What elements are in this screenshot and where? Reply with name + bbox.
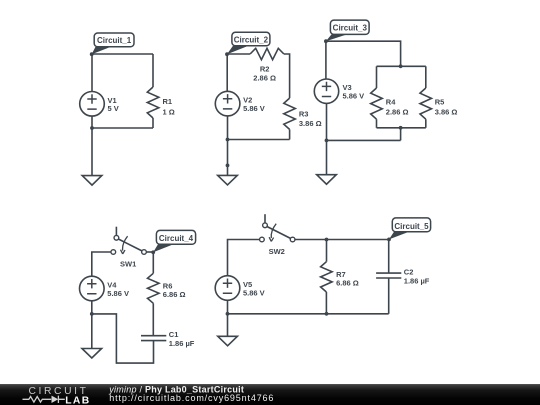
V2 plus minus [223, 94, 232, 109]
svg-text:5.86 V: 5.86 V [107, 289, 129, 298]
wire circuit5 down to R7 [326, 240, 328, 262]
wire circuit4 down to R6 [152, 252, 154, 273]
wire R5 top lead [425, 66, 427, 88]
switch SW2 stub [264, 214, 266, 223]
node circuit3 top rail junction [399, 64, 403, 68]
wire C2 bottom lead [388, 278, 390, 314]
wire circuit5 C2 top lead [388, 240, 390, 274]
wire circuit1 bottom [92, 127, 153, 129]
resistor R7 [321, 262, 333, 292]
wire R6 to C1 [152, 303, 154, 335]
node circuit1 bottom-left junction [90, 126, 94, 130]
switch terminals [111, 223, 295, 254]
ground circuit5 [218, 336, 238, 346]
svg-text:LAB: LAB [65, 395, 90, 405]
switch SW2 arrowhead [269, 237, 274, 241]
switch SW2 arrow arc [271, 224, 276, 238]
resistor R4 [371, 88, 383, 119]
wire circuit2 left lower to ground [227, 116, 229, 175]
svg-text:R2: R2 [260, 65, 270, 74]
SW1 top throw terminal [114, 235, 119, 240]
svg-text:R3: R3 [299, 109, 309, 118]
svg-text:SW1: SW1 [120, 259, 136, 268]
svg-text:http://circuitlab.com/cvy695nt: http://circuitlab.com/cvy695nt4766 [109, 393, 274, 403]
svg-text:R4: R4 [386, 98, 396, 107]
node circuit2 ground wire junction [226, 164, 230, 168]
node circuit3 bottom-left junction [325, 139, 329, 143]
ground circuit3 [317, 175, 337, 185]
svg-text:6.86 Ω: 6.86 Ω [336, 279, 359, 288]
svg-text:5 V: 5 V [108, 104, 119, 113]
wire circuit1 left upper [91, 54, 93, 92]
wire circuit3 left upper [325, 41, 327, 79]
wire circuit4 V4 down to ground [91, 301, 93, 349]
svg-text:R5: R5 [435, 98, 445, 107]
svg-text:Circuit_5: Circuit_5 [394, 222, 429, 231]
node circuit3 bottom rail junction [399, 126, 403, 130]
wire SW1 common to corner [146, 251, 153, 253]
resistor R2 [250, 48, 284, 59]
svg-text:2.86 Ω: 2.86 Ω [386, 108, 409, 117]
SW1 left throw terminal [111, 250, 116, 255]
capacitor C1 top plate [141, 335, 166, 337]
svg-text:R1: R1 [163, 97, 173, 106]
logo diode [52, 396, 59, 403]
V5 plus minus [223, 279, 232, 294]
svg-text:R7: R7 [336, 270, 346, 279]
node circuit5 R7 top junction [325, 238, 329, 242]
switch SW1 lever [119, 239, 142, 251]
label flag Circuit_2 [225, 32, 270, 56]
voltage source V3 [314, 79, 338, 103]
voltage source V5 [215, 276, 240, 301]
resistor R3 [284, 98, 296, 129]
svg-text:Circuit_1: Circuit_1 [97, 36, 132, 45]
resistor R6 [148, 273, 160, 303]
SW2 top throw terminal [263, 223, 268, 228]
ground circuit2 [218, 175, 238, 185]
wire SW2 common to C2 corner [295, 239, 389, 241]
ground circuit4 [82, 349, 102, 359]
svg-text:5.86 V: 5.86 V [343, 92, 365, 101]
wire circuit5 V5 to switch [228, 240, 260, 276]
ground circuit1 [82, 176, 102, 186]
svg-text:1 Ω: 1 Ω [163, 107, 175, 116]
wire circuit3 left lower to ground [326, 103, 328, 174]
label flag Circuit_4 [151, 230, 195, 254]
wire circuit1 right upper [152, 54, 154, 87]
svg-text:C1: C1 [169, 330, 179, 339]
logo wire with resistor [23, 397, 52, 403]
switch SW1 arrowhead [121, 250, 126, 254]
svg-text:1.86 µF: 1.86 µF [404, 277, 430, 286]
voltage source V1 [80, 92, 105, 117]
wire circuit2 top left [227, 53, 250, 55]
voltage source V2 [215, 91, 240, 116]
svg-text:Circuit_2: Circuit_2 [234, 35, 269, 44]
wire circuit2 top right [284, 54, 290, 98]
label flag Circuit_1 [90, 33, 134, 56]
switch SW1 arrow arc [123, 236, 128, 250]
wire circuit4 C1 to bottom [92, 314, 154, 363]
label flag Circuit_5 [387, 218, 430, 241]
SW2 left throw terminal [260, 237, 265, 242]
capacitor C2 top plate [376, 272, 401, 274]
switch SW2 lever [267, 227, 290, 239]
wire circuit3 middle down [400, 128, 402, 141]
capacitor C1 bottom plate [141, 340, 166, 342]
V1 plus minus [87, 82, 331, 294]
wire circuit1 top [92, 53, 153, 55]
wire R4 bottom lead [376, 119, 378, 128]
V3 plus minus [322, 82, 331, 97]
wire circuit2 right lower [289, 129, 291, 139]
component texts [107, 65, 457, 348]
wire circuit2 left upper [226, 54, 228, 91]
capacitor C2 bottom plate [376, 277, 401, 279]
svg-text:Circuit_3: Circuit_3 [333, 24, 368, 33]
svg-text:SW2: SW2 [269, 247, 285, 256]
wire circuit5 V5 to ground [227, 300, 229, 336]
resistor R5 [420, 88, 432, 119]
wire circuit1 right lower [152, 118, 154, 128]
wire R4 top lead [376, 66, 378, 88]
svg-text:2.86 Ω: 2.86 Ω [253, 74, 276, 83]
svg-text:1.86 µF: 1.86 µF [169, 339, 195, 348]
wire R5 bottom lead [425, 119, 427, 128]
wire circuit1 left lower to ground [91, 116, 93, 176]
svg-text:Circuit_4: Circuit_4 [159, 234, 194, 243]
wire circuit3 bottom [327, 139, 401, 141]
V4 plus minus [87, 279, 96, 294]
svg-text:C2: C2 [404, 268, 414, 277]
resistor R1 [147, 87, 159, 118]
svg-text:6.86 Ω: 6.86 Ω [163, 290, 186, 299]
wire circuit2 bottom [228, 139, 290, 141]
svg-text:5.86 V: 5.86 V [243, 288, 265, 297]
node circuit2 bottom-left junction [226, 138, 230, 142]
svg-text:3.86 Ω: 3.86 Ω [435, 108, 458, 117]
SW2 common terminal [290, 237, 295, 242]
voltage source V4 [80, 276, 105, 301]
node circuit5 R7 bottom junction [325, 312, 329, 316]
wire circuit5 bottom [228, 313, 389, 315]
switch SW1 stub [115, 227, 117, 236]
label flag Circuit_3 [324, 20, 369, 43]
wire circuit3 top [326, 41, 401, 66]
node circuit4 bottom junction [90, 312, 94, 316]
svg-text:3.86 Ω: 3.86 Ω [299, 119, 322, 128]
node circuit5 V5 bottom junction [226, 312, 230, 316]
SW1 common terminal [142, 250, 147, 255]
wire circuit3 parallel bottom rail [377, 127, 426, 129]
wire R7 bottom lead [325, 292, 327, 314]
wire circuit4 V4 to switch [92, 252, 111, 276]
svg-text:5.86 V: 5.86 V [243, 104, 265, 113]
wire circuit3 parallel top rail [377, 65, 426, 67]
